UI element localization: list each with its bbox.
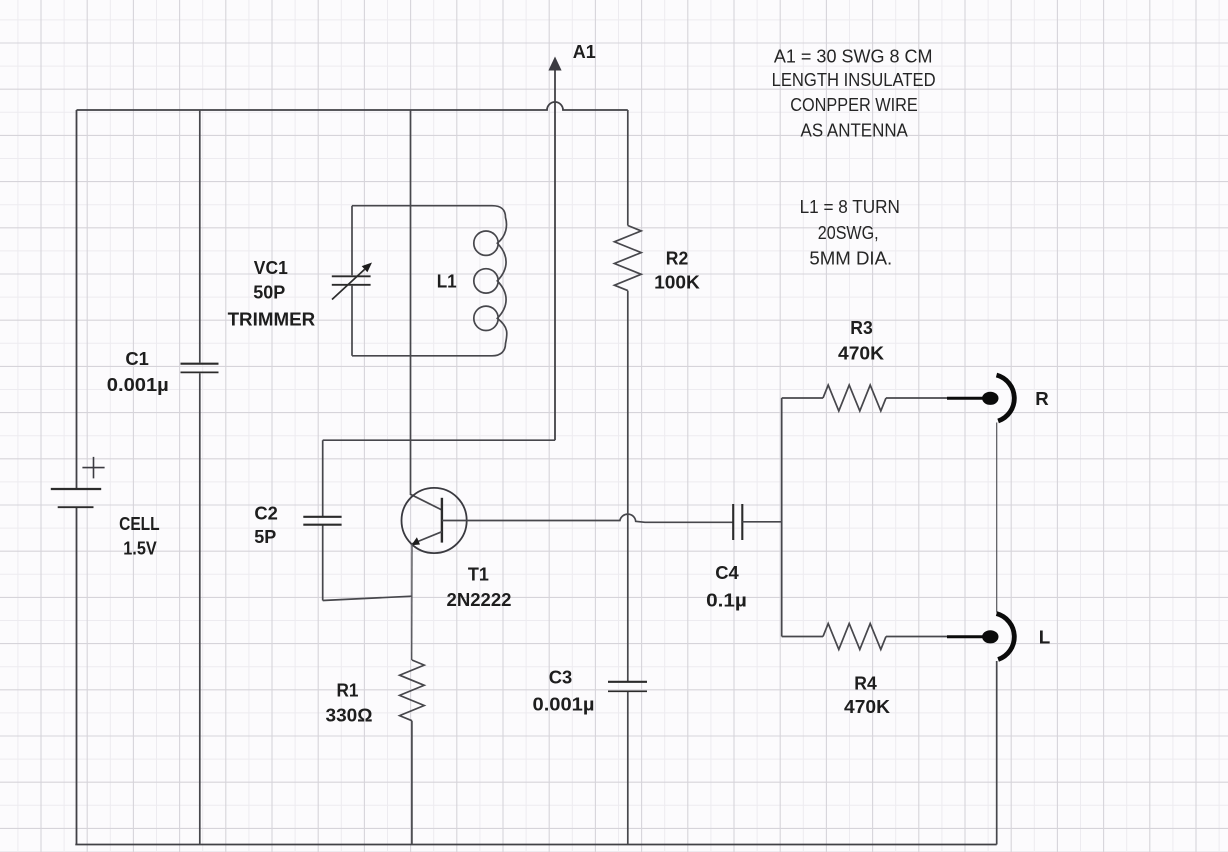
- svg-text:A1 = 30 SWG 8 CM: A1 = 30 SWG 8 CM: [774, 46, 933, 66]
- svg-text:C4: C4: [715, 562, 739, 583]
- svg-text:R: R: [1035, 388, 1049, 409]
- svg-text:R2: R2: [666, 248, 689, 269]
- svg-text:C1: C1: [125, 348, 149, 369]
- svg-text:470K: 470K: [844, 696, 891, 717]
- svg-text:50P: 50P: [253, 282, 285, 303]
- svg-text:L1 = 8 TURN: L1 = 8 TURN: [800, 197, 900, 217]
- svg-text:TRIMMER: TRIMMER: [228, 308, 316, 329]
- svg-text:A1: A1: [573, 41, 596, 62]
- svg-text:470K: 470K: [838, 343, 885, 364]
- svg-text:T1: T1: [468, 563, 489, 584]
- svg-text:L1: L1: [437, 271, 457, 292]
- svg-text:0.001µ: 0.001µ: [107, 374, 169, 395]
- svg-text:5MM DIA.: 5MM DIA.: [809, 248, 892, 268]
- svg-text:5P: 5P: [254, 526, 276, 547]
- svg-text:CONPPER WIRE: CONPPER WIRE: [790, 95, 918, 115]
- svg-text:R4: R4: [854, 672, 877, 693]
- svg-text:L: L: [1039, 627, 1051, 648]
- svg-text:AS ANTENNA: AS ANTENNA: [801, 121, 909, 141]
- svg-text:0.001µ: 0.001µ: [533, 693, 595, 714]
- svg-text:100K: 100K: [654, 272, 700, 293]
- svg-text:20SWG,: 20SWG,: [818, 223, 879, 243]
- svg-text:CELL: CELL: [119, 513, 160, 534]
- svg-text:1.5V: 1.5V: [123, 537, 157, 558]
- svg-text:LENGTH INSULATED: LENGTH INSULATED: [772, 70, 936, 90]
- svg-text:VC1: VC1: [254, 257, 288, 278]
- svg-text:R1: R1: [337, 679, 359, 700]
- svg-text:C2: C2: [254, 502, 278, 523]
- svg-text:0.1µ: 0.1µ: [706, 589, 747, 610]
- svg-text:C3: C3: [549, 666, 573, 687]
- svg-text:330Ω: 330Ω: [326, 704, 373, 725]
- svg-text:R3: R3: [850, 317, 873, 338]
- svg-text:2N2222: 2N2222: [447, 589, 512, 610]
